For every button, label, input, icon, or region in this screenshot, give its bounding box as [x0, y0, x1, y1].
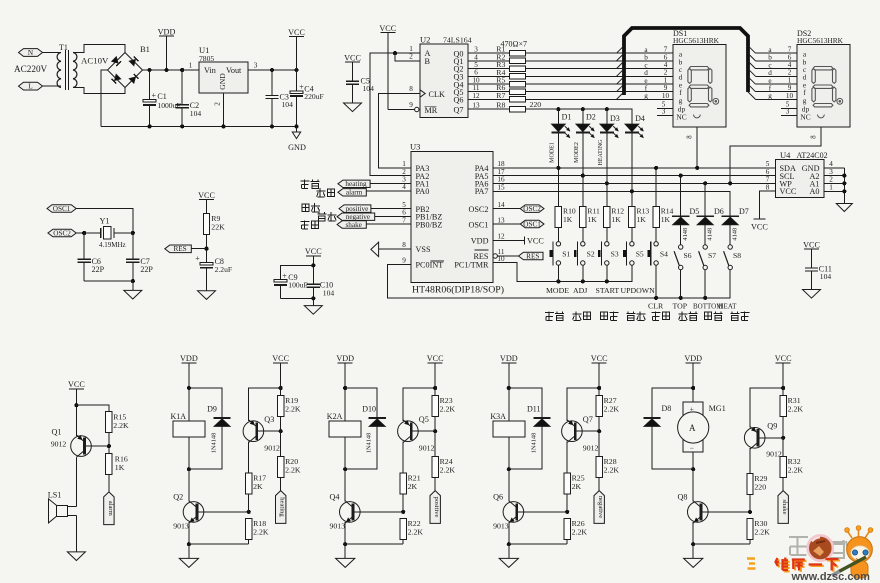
svg-text:UPDOWN: UPDOWN	[621, 286, 656, 295]
wire Q9 emitter to VCC node	[750, 388, 783, 428]
svg-text:AC220V: AC220V	[14, 64, 48, 74]
wire Q5 collector to R21	[402, 442, 404, 473]
wire Q6 base	[517, 511, 568, 513]
svg-text:22P: 22P	[92, 265, 105, 274]
svg-text:g: g	[803, 96, 807, 105]
svg-text:4148: 4148	[706, 228, 713, 241]
wire relay K3A to Q collector	[508, 437, 510, 502]
svg-text:OSC2: OSC2	[53, 229, 71, 237]
svg-text:1000uF: 1000uF	[157, 101, 180, 110]
toggle switch S7	[703, 245, 707, 249]
svg-text:9013: 9013	[173, 522, 189, 531]
ground rail wire	[101, 125, 297, 127]
svg-text:4.19MHz: 4.19MHz	[99, 241, 126, 249]
watermark magnifier	[808, 535, 833, 560]
svg-text:S7: S7	[708, 251, 716, 260]
svg-text:3: 3	[786, 108, 790, 116]
label shake CN	[301, 220, 310, 229]
svg-text:VCC: VCC	[780, 187, 797, 196]
wire PC0INT to button common rail	[387, 264, 730, 298]
wire S3 bottom	[606, 265, 608, 281]
svg-text:2.2K: 2.2K	[604, 465, 620, 474]
resistor R27	[596, 396, 602, 417]
resistor R31	[780, 396, 786, 417]
wire ground rail	[345, 543, 403, 545]
wire D5 to switch S6	[680, 225, 682, 245]
svg-text:+: +	[690, 404, 694, 413]
wire rail PA4 to U4 SDA	[493, 167, 775, 169]
svg-text:7: 7	[402, 216, 406, 224]
wire rail to diode D6	[704, 183, 706, 216]
svg-text:OSC1: OSC1	[53, 205, 71, 213]
svg-text:C1: C1	[157, 92, 166, 101]
wire RES tag to R9/C8 node	[191, 248, 206, 250]
svg-text:heating: heating	[345, 180, 367, 188]
display DS2 seven segment digit	[813, 67, 833, 70]
svg-text:VDD: VDD	[471, 237, 489, 246]
wire DS2 common pin to rail PA6	[730, 127, 821, 183]
svg-text:MODE1: MODE1	[550, 142, 556, 163]
svg-text:2.2K: 2.2K	[440, 405, 456, 414]
svg-text:1N4148: 1N4148	[211, 433, 218, 454]
svg-text:9: 9	[409, 101, 413, 109]
capacitor C8	[200, 263, 213, 266]
svg-text:ADJ: ADJ	[573, 286, 587, 295]
wire S6 bottom to rail	[680, 270, 682, 298]
tag OSC2 at U3	[493, 208, 520, 210]
display DS1 bottom mark	[693, 115, 700, 118]
svg-text:N: N	[28, 49, 34, 57]
svg-text:74LS164: 74LS164	[443, 36, 472, 45]
svg-text:heating: heating	[279, 497, 286, 517]
svg-text:2.2K: 2.2K	[788, 405, 804, 414]
wire ground rail	[509, 543, 567, 545]
resistor R9	[203, 214, 209, 235]
LED D1	[557, 109, 559, 124]
svg-text:AT24C02: AT24C02	[797, 151, 828, 160]
svg-text:104: 104	[363, 84, 375, 93]
svg-text:PC1/TMR: PC1/TMR	[454, 261, 489, 270]
tag OSC1 left	[47, 205, 76, 213]
svg-text:9012: 9012	[264, 443, 280, 452]
svg-text:S1: S1	[562, 249, 570, 258]
LED D3	[606, 109, 608, 124]
display DS1 dp/NC stubs	[657, 107, 673, 109]
svg-text:12: 12	[497, 233, 505, 241]
ground symbol	[684, 558, 703, 567]
wire VDD node to diode D8	[652, 388, 693, 418]
resistor R6	[509, 89, 525, 94]
svg-text:MG1: MG1	[709, 404, 726, 413]
display DS1 decimal point	[713, 98, 719, 104]
svg-text:START: START	[596, 286, 620, 295]
resistor R15	[106, 412, 112, 433]
svg-text:AC10V: AC10V	[81, 56, 109, 66]
wire U2 Q1 to resistor R2	[468, 60, 509, 62]
svg-text:PA7: PA7	[475, 187, 489, 196]
svg-text:MODE: MODE	[546, 286, 569, 295]
svg-text:13: 13	[472, 102, 480, 110]
svg-text:4148: 4148	[682, 228, 689, 241]
resistor R21	[400, 473, 406, 494]
svg-text:VDD: VDD	[336, 354, 354, 363]
svg-text:16: 16	[497, 176, 505, 184]
wires R1-R7 to display DS1 pins	[525, 52, 673, 54]
connector N	[19, 49, 43, 57]
wire U2 Q4 to resistor R5	[468, 83, 509, 85]
wire Q9 collector to R29	[749, 448, 751, 473]
svg-text:D5: D5	[690, 207, 700, 216]
wire R32 to tag	[782, 477, 784, 490]
svg-text:S6: S6	[684, 251, 692, 260]
capacitor C11	[805, 267, 818, 269]
svg-text:8: 8	[766, 184, 770, 192]
svg-text:U3: U3	[410, 141, 420, 151]
svg-text:3: 3	[254, 62, 258, 70]
svg-text:2.2K: 2.2K	[285, 465, 301, 474]
wire D11 to bottom node	[509, 427, 542, 470]
display DS2 bottom mark	[818, 115, 825, 118]
wire VDD node to diode D9	[189, 388, 222, 418]
wire Q8 emitter to ground	[692, 522, 694, 544]
wire negative to PB1	[375, 215, 411, 217]
resistor R2	[509, 58, 525, 63]
capacitor C10	[307, 283, 320, 285]
svg-text:8: 8	[409, 85, 413, 93]
tag alarm	[338, 189, 366, 196]
wires bus to display DS2 pins	[756, 52, 798, 54]
svg-text:1: 1	[829, 184, 833, 192]
svg-text:A: A	[689, 423, 696, 433]
svg-text:HEATING: HEATING	[598, 139, 604, 166]
svg-text:2.2K: 2.2K	[440, 465, 456, 474]
svg-text:NC: NC	[800, 112, 810, 121]
svg-text:104: 104	[190, 109, 202, 118]
svg-text:220: 220	[754, 482, 766, 491]
svg-text:D7: D7	[739, 207, 749, 216]
svg-text:13: 13	[497, 216, 505, 224]
svg-text:2: 2	[829, 176, 833, 184]
LED D4	[625, 124, 639, 132]
svg-text:D9: D9	[207, 405, 217, 414]
wire ground rail	[693, 543, 750, 545]
tag negative	[337, 213, 375, 220]
svg-text:Q6: Q6	[493, 493, 503, 502]
bus entry diagonals right	[748, 46, 756, 54]
ground below C10	[304, 306, 322, 315]
wire U2 Q7 to resistor R8	[468, 108, 509, 110]
diode D7 4148	[722, 215, 739, 217]
svg-text:Q2: Q2	[173, 493, 183, 502]
svg-text:S3: S3	[611, 249, 619, 258]
wire Q3 base	[257, 430, 281, 432]
svg-text:VCC: VCC	[344, 54, 361, 63]
pushbutton S1	[556, 242, 560, 246]
svg-text:10: 10	[662, 92, 670, 100]
wire U1 GND pin to ground rail	[223, 93, 225, 126]
wire Q7 emitter to VCC node	[567, 388, 599, 421]
wire S5 bottom	[631, 265, 633, 281]
svg-text:+: +	[195, 254, 200, 263]
svg-text:A0: A0	[809, 187, 819, 196]
wire Q3 collector to R17	[248, 442, 250, 473]
svg-text:CLK: CLK	[429, 90, 445, 99]
diode D5 4148	[672, 215, 689, 217]
resistor R32	[780, 456, 786, 477]
wire Q6 emitter to ground	[508, 522, 510, 544]
wire R28 to tag	[598, 477, 600, 490]
svg-text:D4: D4	[635, 114, 645, 123]
wire Q5 base	[411, 430, 435, 432]
wire heating to PA1	[370, 182, 411, 184]
bus wire to displays	[624, 28, 748, 95]
toggle switch S8	[728, 245, 732, 249]
svg-text:OSC1: OSC1	[523, 220, 541, 228]
svg-text:www.dzsc.com: www.dzsc.com	[791, 571, 871, 583]
svg-text:Vout: Vout	[226, 66, 242, 75]
svg-text:1K: 1K	[115, 463, 125, 472]
svg-text:D2: D2	[586, 113, 596, 122]
resistor R26	[564, 518, 570, 539]
svg-text:104: 104	[323, 289, 335, 298]
svg-text:Q3: Q3	[264, 415, 274, 424]
LED D2	[582, 109, 584, 124]
svg-text:VDD: VDD	[684, 354, 702, 363]
svg-text:PB0/BZ: PB0/BZ	[416, 220, 443, 229]
capacitor C4	[296, 70, 298, 91]
resistor R22	[400, 518, 406, 539]
wire VSS arrow to pin 8	[379, 248, 411, 250]
resistor R14	[653, 207, 659, 228]
svg-text:VCC: VCC	[305, 247, 322, 256]
wire U2 B input branch	[395, 53, 420, 61]
svg-text:12: 12	[472, 92, 480, 100]
svg-text:LS1: LS1	[48, 491, 62, 500]
tag alarm vertical	[104, 492, 114, 525]
tag heating	[338, 180, 370, 187]
svg-text:S5: S5	[636, 249, 644, 258]
resistor R29	[747, 473, 753, 494]
svg-text:CLR: CLR	[648, 301, 664, 310]
svg-text:S8: S8	[733, 251, 741, 260]
diode D9 1N4148	[214, 417, 231, 419]
capacitor C5	[346, 80, 359, 82]
wire U2 CLK from U3 PA3	[379, 94, 421, 168]
svg-text:VCC: VCC	[803, 240, 820, 249]
svg-text:3: 3	[662, 108, 666, 116]
svg-text:9012: 9012	[51, 439, 67, 448]
wire alarm to PA0	[366, 190, 411, 192]
svg-text:K2A: K2A	[327, 412, 343, 421]
wire R24 to tag	[434, 477, 436, 490]
label alarm CN	[317, 188, 326, 197]
wire VCC to U2 MR pin 9	[387, 33, 389, 110]
overline on PC0 INT	[431, 260, 445, 262]
capacitor C3	[271, 70, 273, 95]
wire U2 Q5 to resistor R6	[468, 91, 509, 93]
svg-text:220: 220	[530, 100, 542, 109]
svg-text:104: 104	[820, 272, 832, 281]
svg-text:VDD: VDD	[500, 354, 518, 363]
wire R11 to switch S2	[582, 228, 584, 242]
svg-text:VCC: VCC	[68, 380, 85, 389]
svg-text:MODE2: MODE2	[574, 142, 580, 163]
wire Y1 to C7 node	[114, 232, 133, 234]
svg-text:2: 2	[213, 102, 221, 106]
svg-text:10: 10	[786, 92, 794, 100]
wire crystal ground rail	[84, 280, 133, 282]
wire D10 to bottom node	[345, 427, 377, 470]
svg-text:Q7: Q7	[583, 415, 593, 424]
bus entry diagonals left	[617, 46, 625, 54]
svg-text:2K: 2K	[408, 482, 418, 491]
svg-text:2.2K: 2.2K	[572, 527, 588, 536]
display DS2 decimal point	[837, 98, 843, 104]
label heating CN	[301, 180, 310, 189]
resistor R5	[509, 82, 525, 87]
wire rail PA7 to D7	[493, 191, 730, 216]
wire OSC2 to crystal	[76, 232, 101, 234]
svg-text:1N4148: 1N4148	[366, 433, 373, 454]
ground symbol	[499, 558, 518, 567]
wires U4 GND A2 A1 A0 to ground	[824, 167, 844, 169]
wire R16 to alarm tag	[108, 475, 110, 492]
wire S7 bottom to rail	[704, 270, 706, 298]
wire S1 bottom	[557, 265, 559, 281]
svg-text:Vin: Vin	[204, 66, 216, 75]
wire N to T1	[43, 52, 62, 54]
wire D6 to switch S7	[704, 225, 706, 245]
svg-text:VSS: VSS	[416, 245, 431, 254]
wire Q5 emitter to VCC node	[403, 388, 435, 421]
wire Q7 base	[575, 430, 599, 432]
svg-text:Q9: Q9	[767, 421, 777, 430]
wire D2 cathode down column	[582, 134, 584, 207]
VSS ground arrow	[371, 242, 379, 256]
resistor R13	[629, 207, 635, 228]
wire rail PA6 to U4 WP	[493, 182, 775, 184]
power symbol VCC at U3 VDD	[493, 240, 525, 242]
ground symbol	[179, 558, 198, 567]
svg-text:VDD: VDD	[180, 354, 198, 363]
svg-text:1: 1	[189, 62, 193, 70]
svg-text:PA0: PA0	[416, 187, 430, 196]
watermark red text weikuyixia	[777, 559, 790, 572]
wire VDD node to diode D10	[345, 388, 377, 418]
wire S2 bottom	[582, 265, 584, 281]
wire U2 A input from U3 PA2	[370, 53, 420, 175]
ground below C5	[344, 103, 362, 112]
diode D8 1N4148	[643, 417, 660, 419]
svg-text:9013: 9013	[330, 522, 346, 531]
svg-text:220uF: 220uF	[304, 92, 323, 101]
svg-text:VCC: VCC	[272, 354, 289, 363]
svg-text:1N4148: 1N4148	[530, 433, 537, 454]
resistor R30	[747, 518, 753, 539]
wire speaker terminals	[67, 505, 76, 507]
svg-text:PC0INT: PC0INT	[416, 261, 444, 270]
wire R8 to LED anode rail	[525, 109, 632, 124]
resistor R24	[432, 456, 438, 477]
wire D7 to switch S8	[729, 225, 731, 245]
connector L	[19, 82, 43, 90]
svg-text:OSC2: OSC2	[523, 205, 541, 213]
overline on RES pin 11	[475, 249, 489, 251]
ground below U4	[836, 204, 852, 212]
wire U4 VCC pin 8 to VCC symbol	[759, 191, 775, 219]
clock wedge on U2 CLK	[420, 90, 425, 97]
svg-text:+: +	[152, 91, 157, 100]
svg-text:8: 8	[811, 135, 818, 139]
svg-text:D10: D10	[362, 405, 376, 414]
wire rail to diode D5	[680, 176, 682, 217]
wire Q7 collector to R25	[566, 442, 568, 473]
svg-text:g: g	[679, 96, 683, 105]
capacitor C6	[83, 233, 85, 259]
svg-text:1K: 1K	[637, 215, 647, 224]
svg-text:8: 8	[687, 135, 694, 139]
tag positive vertical	[430, 491, 440, 524]
resistor R18	[246, 518, 252, 539]
wire R10 to switch S1	[557, 228, 559, 242]
resistor R17	[246, 473, 252, 494]
wire D8 to bottom node	[652, 427, 693, 470]
svg-text:Y1: Y1	[100, 216, 110, 225]
svg-text:9012: 9012	[419, 443, 435, 452]
svg-text:2K: 2K	[572, 482, 582, 491]
tag heating vertical	[276, 491, 286, 524]
label positive CN	[302, 204, 309, 212]
svg-text:9013: 9013	[493, 522, 509, 531]
resistor R1	[509, 51, 525, 56]
svg-text:1K: 1K	[587, 215, 597, 224]
tag shake vertical	[778, 491, 788, 524]
wire R20 to tag	[280, 477, 282, 490]
svg-text:9: 9	[402, 257, 406, 265]
svg-text:VDD: VDD	[158, 28, 176, 37]
wire U2 Q3 to resistor R4	[468, 75, 509, 77]
svg-text:L: L	[28, 83, 32, 91]
resistor R12	[604, 207, 610, 228]
watermark mascot	[847, 531, 852, 539]
wire R12 to switch S3	[606, 228, 608, 242]
svg-text:D1: D1	[562, 113, 572, 122]
svg-text:shake: shake	[346, 221, 362, 229]
toggle switch S6	[679, 245, 683, 249]
wire U1 output rail	[248, 69, 297, 71]
display DS1 seven segment digit	[689, 67, 709, 70]
svg-text:VCC: VCC	[591, 354, 608, 363]
svg-text:2.2K: 2.2K	[253, 527, 269, 536]
svg-text:alarm: alarm	[346, 189, 363, 197]
wire VCC node to C9	[280, 265, 313, 279]
svg-text:RES: RES	[526, 252, 539, 260]
svg-text:7: 7	[766, 176, 770, 184]
svg-text:D11: D11	[527, 405, 540, 414]
wire positive to PB2	[371, 208, 411, 210]
resistor R11	[580, 207, 586, 228]
resistor R25	[564, 473, 570, 494]
wire VDD node to diode D11	[509, 388, 542, 418]
svg-text:S2: S2	[587, 249, 595, 258]
svg-text:VCC: VCC	[379, 24, 396, 33]
svg-text:2K: 2K	[253, 482, 263, 491]
svg-text:2.2K: 2.2K	[285, 405, 301, 414]
pushbutton S2	[581, 242, 585, 246]
tag negative vertical	[594, 491, 604, 524]
ground below C11	[803, 290, 821, 299]
bubble on U3 RES pin	[493, 254, 497, 258]
